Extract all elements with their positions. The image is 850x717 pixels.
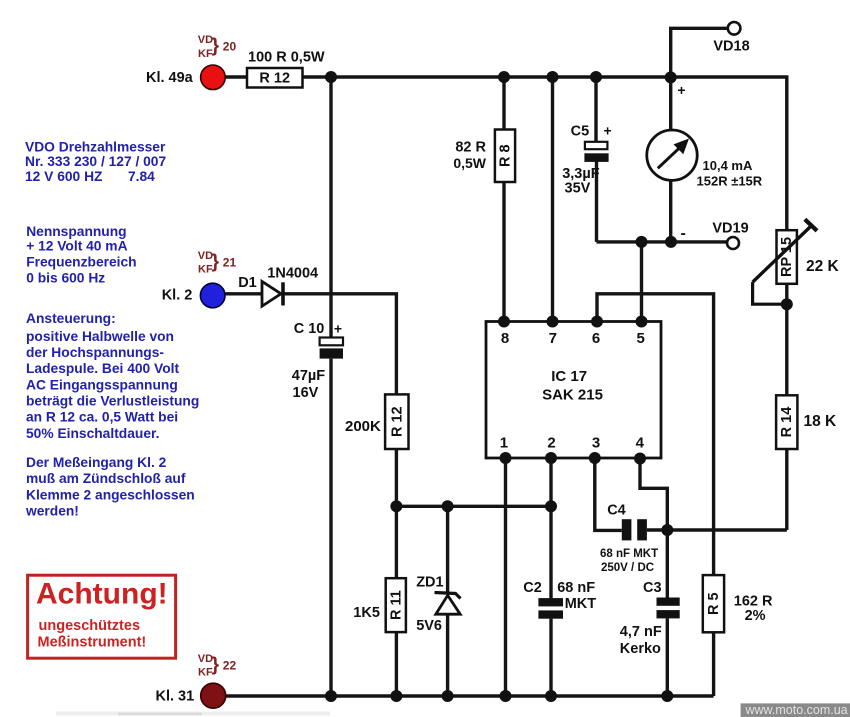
- node VD KF 20: [198, 34, 237, 60]
- svg-text:R 11: R 11: [388, 590, 404, 620]
- svg-text:10,4 mA: 10,4 mA: [703, 158, 753, 173]
- svg-text:ungeschütztes: ungeschütztes: [39, 618, 141, 634]
- svg-text:R 12: R 12: [259, 71, 290, 87]
- svg-text:positive Halbwelle von: positive Halbwelle von: [26, 329, 174, 344]
- scan noise bottom: [56, 712, 330, 716]
- svg-text:152R ±15R: 152R ±15R: [697, 173, 763, 188]
- svg-text:50% Einschaltdauer.: 50% Einschaltdauer.: [26, 426, 159, 441]
- wire C5 top: [594, 77, 597, 142]
- svg-text:C4: C4: [607, 502, 626, 518]
- wire minus rail to VD19: [597, 240, 728, 243]
- svg-text:muß am Zündschloß auf: muß am Zündschloß auf: [26, 471, 186, 486]
- terminal VD19: [681, 221, 749, 250]
- wire pin4 to C4 node: [640, 459, 667, 531]
- wire C2 bottom: [549, 619, 552, 696]
- svg-text:Achtung!: Achtung!: [36, 578, 168, 611]
- terminal Kl. 49a: [146, 65, 225, 90]
- pin 4 dot: [634, 453, 646, 465]
- terminal Kl. 2: [162, 283, 225, 308]
- node bottom rail C2: [545, 690, 557, 702]
- wire VD18 branch: [671, 28, 728, 78]
- wire RP15 to R14: [785, 284, 788, 396]
- svg-text:AC Eingangsspannung: AC Eingangsspannung: [26, 377, 178, 392]
- svg-text:7.84: 7.84: [128, 169, 155, 184]
- svg-text:werden!: werden!: [25, 504, 79, 519]
- wire top rail: [303, 77, 787, 230]
- svg-text:0 bis 600 Hz: 0 bis 600 Hz: [26, 270, 105, 285]
- svg-text:22 K: 22 K: [806, 258, 840, 275]
- node top rail R12: [325, 71, 337, 83]
- svg-text:}: }: [212, 250, 220, 272]
- pin 5 dot: [636, 316, 648, 328]
- wire ZD1 top: [446, 506, 449, 593]
- wire left vertical upper: [329, 77, 332, 338]
- wire ZD1 bottom: [446, 614, 449, 696]
- svg-text:Kl. 49a: Kl. 49a: [146, 70, 194, 86]
- node VD KF 21: [198, 250, 237, 276]
- node bottom rail ZD1: [442, 690, 454, 702]
- svg-text:4,7 nF: 4,7 nF: [620, 624, 662, 640]
- svg-text:MKT: MKT: [565, 596, 597, 612]
- svg-text:Der Meßeingang Kl. 2: Der Meßeingang Kl. 2: [26, 455, 167, 470]
- svg-text:8: 8: [501, 330, 509, 347]
- svg-text:162 R: 162 R: [734, 593, 773, 609]
- node bottom rail 200K: [390, 690, 402, 702]
- svg-text:3: 3: [592, 435, 600, 452]
- pin 2 dot: [545, 452, 557, 464]
- svg-text:2%: 2%: [745, 608, 766, 624]
- wire zener branch horizontal: [396, 505, 551, 508]
- wire C4 node to C3: [666, 530, 669, 598]
- svg-text:5V6: 5V6: [416, 618, 442, 634]
- wire D1 to 200K: [283, 294, 396, 395]
- svg-text:C3: C3: [643, 580, 662, 596]
- capacitor C3: [620, 580, 680, 657]
- svg-text:+ 12 Volt 40 mA: + 12 Volt 40 mA: [26, 238, 127, 253]
- svg-text:1N4004: 1N4004: [267, 265, 318, 281]
- svg-text:an R 12 ca. 0,5 Watt bei: an R 12 ca. 0,5 Watt bei: [26, 410, 178, 425]
- svg-text:47µF: 47µF: [292, 368, 325, 384]
- node bottom rail C3: [661, 690, 673, 702]
- capacitor C2: [523, 580, 596, 619]
- pin 6 dot: [591, 316, 603, 328]
- wire pin1 vertical: [504, 458, 507, 696]
- svg-text:VDO Drehzahlmesser: VDO Drehzahlmesser: [25, 139, 166, 154]
- svg-text:C 10: C 10: [294, 321, 325, 337]
- node branch 200K: [390, 500, 402, 512]
- svg-text:200K: 200K: [345, 418, 381, 435]
- wire bottom rail: [224, 694, 714, 697]
- wire pin2 to C2: [549, 458, 552, 598]
- svg-text:Ansteuerung:: Ansteuerung:: [26, 311, 116, 326]
- node minus rail pin5: [636, 236, 648, 248]
- svg-text:22: 22: [223, 658, 237, 672]
- capacitor C4: [600, 502, 658, 574]
- svg-text:Frequenzbereich: Frequenzbereich: [26, 255, 136, 270]
- svg-text:100 R 0,5W: 100 R 0,5W: [248, 50, 325, 66]
- wire meter top: [669, 77, 672, 131]
- svg-text:R 8: R 8: [498, 144, 514, 167]
- svg-text:+: +: [334, 320, 342, 336]
- node bottom rail left: [325, 690, 337, 702]
- svg-text:SAK 215: SAK 215: [542, 386, 603, 403]
- svg-text:VD18: VD18: [713, 39, 749, 55]
- wire 200K bottom: [395, 449, 398, 696]
- svg-text:Kl. 31: Kl. 31: [156, 689, 195, 705]
- resistor R12 (100R): [247, 50, 325, 88]
- svg-text:der Hochspannungs-: der Hochspannungs-: [26, 345, 164, 360]
- note blue header text: [25, 139, 199, 518]
- svg-text:20: 20: [223, 40, 237, 54]
- node branch ZD1: [442, 500, 454, 512]
- diode D1 1N4004: [238, 265, 318, 306]
- svg-text:}: }: [212, 653, 220, 675]
- node top rail meter: [665, 71, 677, 83]
- svg-text:-: -: [681, 225, 686, 242]
- svg-text:+: +: [677, 82, 685, 98]
- svg-text:16V: 16V: [293, 385, 319, 401]
- resistor R8: [453, 130, 515, 183]
- svg-text:1: 1: [500, 435, 508, 452]
- svg-text:6: 6: [592, 330, 600, 347]
- svg-text:Ladespule. Bei 400 Volt: Ladespule. Bei 400 Volt: [26, 361, 179, 376]
- node bottom rail pin1: [500, 690, 512, 702]
- svg-text:VD19: VD19: [712, 221, 748, 237]
- node minus rail meter: [665, 236, 677, 248]
- node RP15 wiper: [781, 298, 793, 310]
- svg-text:Meßinstrument!: Meßinstrument!: [38, 634, 147, 650]
- wire Kl49a to R12: [224, 75, 248, 78]
- note Achtung warning box: [28, 575, 176, 658]
- svg-text:250V / DC: 250V / DC: [601, 562, 654, 574]
- resistor R12 (200K): [345, 394, 409, 449]
- node top rail C5: [590, 71, 602, 83]
- svg-text:R 14: R 14: [779, 407, 795, 438]
- potentiometer RP15: [753, 219, 840, 304]
- svg-text:18 K: 18 K: [804, 413, 838, 430]
- svg-text:+: +: [604, 122, 612, 138]
- wire pin6 to R5 top: [597, 294, 714, 575]
- watermark moto.com.ua: [741, 703, 850, 717]
- capacitor C5: [562, 122, 611, 196]
- svg-text:1K5: 1K5: [353, 605, 380, 621]
- svg-text:R 5: R 5: [706, 592, 722, 615]
- node top rail pin7: [547, 71, 559, 83]
- meter M (10,4 mA): [647, 82, 763, 188]
- resistor R11: [353, 578, 406, 632]
- svg-text:}: }: [212, 35, 220, 57]
- svg-text:68 nF MKT: 68 nF MKT: [600, 548, 658, 560]
- wire meter bottom: [669, 180, 672, 242]
- pin 1 dot: [500, 452, 512, 464]
- svg-text:ZD1: ZD1: [416, 575, 443, 591]
- wire C4 node to R14: [647, 528, 787, 531]
- svg-text:Klemme 2 angeschlossen: Klemme 2 angeschlossen: [26, 487, 195, 502]
- svg-text:C2: C2: [523, 580, 542, 596]
- svg-text:Kerko: Kerko: [620, 641, 661, 657]
- wire left vertical lower: [329, 359, 332, 696]
- wire R8 top: [502, 77, 505, 130]
- pin 8 dot: [498, 316, 510, 328]
- svg-text:2: 2: [547, 435, 555, 452]
- pin 7 dot: [547, 316, 559, 328]
- zener diode ZD1: [416, 575, 460, 635]
- svg-text:7: 7: [549, 330, 557, 347]
- node C4 pin4: [661, 524, 673, 536]
- svg-text:35V: 35V: [565, 181, 591, 197]
- svg-text:Kl. 2: Kl. 2: [162, 288, 193, 304]
- terminal VD18: [713, 22, 749, 55]
- IC U17 SAK215: [486, 322, 661, 459]
- svg-text:R 12: R 12: [389, 406, 405, 437]
- svg-text:www.moto.com.ua: www.moto.com.ua: [745, 703, 848, 717]
- svg-text:D1: D1: [238, 275, 257, 291]
- svg-text:0,5W: 0,5W: [453, 155, 486, 171]
- wire pin7 vertical: [551, 77, 554, 322]
- svg-text:beträgt die Verlustleistung: beträgt die Verlustleistung: [26, 394, 199, 409]
- svg-text:12 V 600 HZ: 12 V 600 HZ: [25, 169, 103, 184]
- wire Kl2 to D1: [224, 292, 262, 295]
- wire C5 bottom: [595, 162, 598, 242]
- wire R5 bottom: [712, 632, 715, 696]
- wire pin5 vertical: [640, 242, 643, 322]
- pin 3 dot: [589, 452, 601, 464]
- resistor R14: [776, 395, 837, 449]
- svg-text:82 R: 82 R: [455, 140, 486, 156]
- svg-text:5: 5: [637, 330, 645, 347]
- terminal Kl. 31: [156, 683, 226, 708]
- wire R8 bottom to pin8: [502, 182, 505, 322]
- resistor R5: [703, 575, 773, 632]
- wire C3 bottom: [666, 618, 669, 696]
- wire pin3 to C4: [595, 458, 622, 530]
- svg-text:IC 17: IC 17: [551, 368, 587, 385]
- svg-text:C5: C5: [571, 123, 590, 139]
- node branch C2: [545, 500, 557, 512]
- svg-text:Nr. 333 230 / 127 / 007: Nr. 333 230 / 127 / 007: [25, 154, 166, 169]
- node top rail R8: [498, 71, 510, 83]
- svg-text:Nennspannung: Nennspannung: [26, 224, 126, 239]
- svg-text:4: 4: [636, 435, 645, 452]
- node VD KF 22: [198, 653, 237, 679]
- svg-text:68 nF: 68 nF: [557, 580, 595, 596]
- wire R14 bottom: [785, 449, 788, 530]
- capacitor C10: [292, 320, 343, 401]
- svg-text:21: 21: [223, 255, 237, 269]
